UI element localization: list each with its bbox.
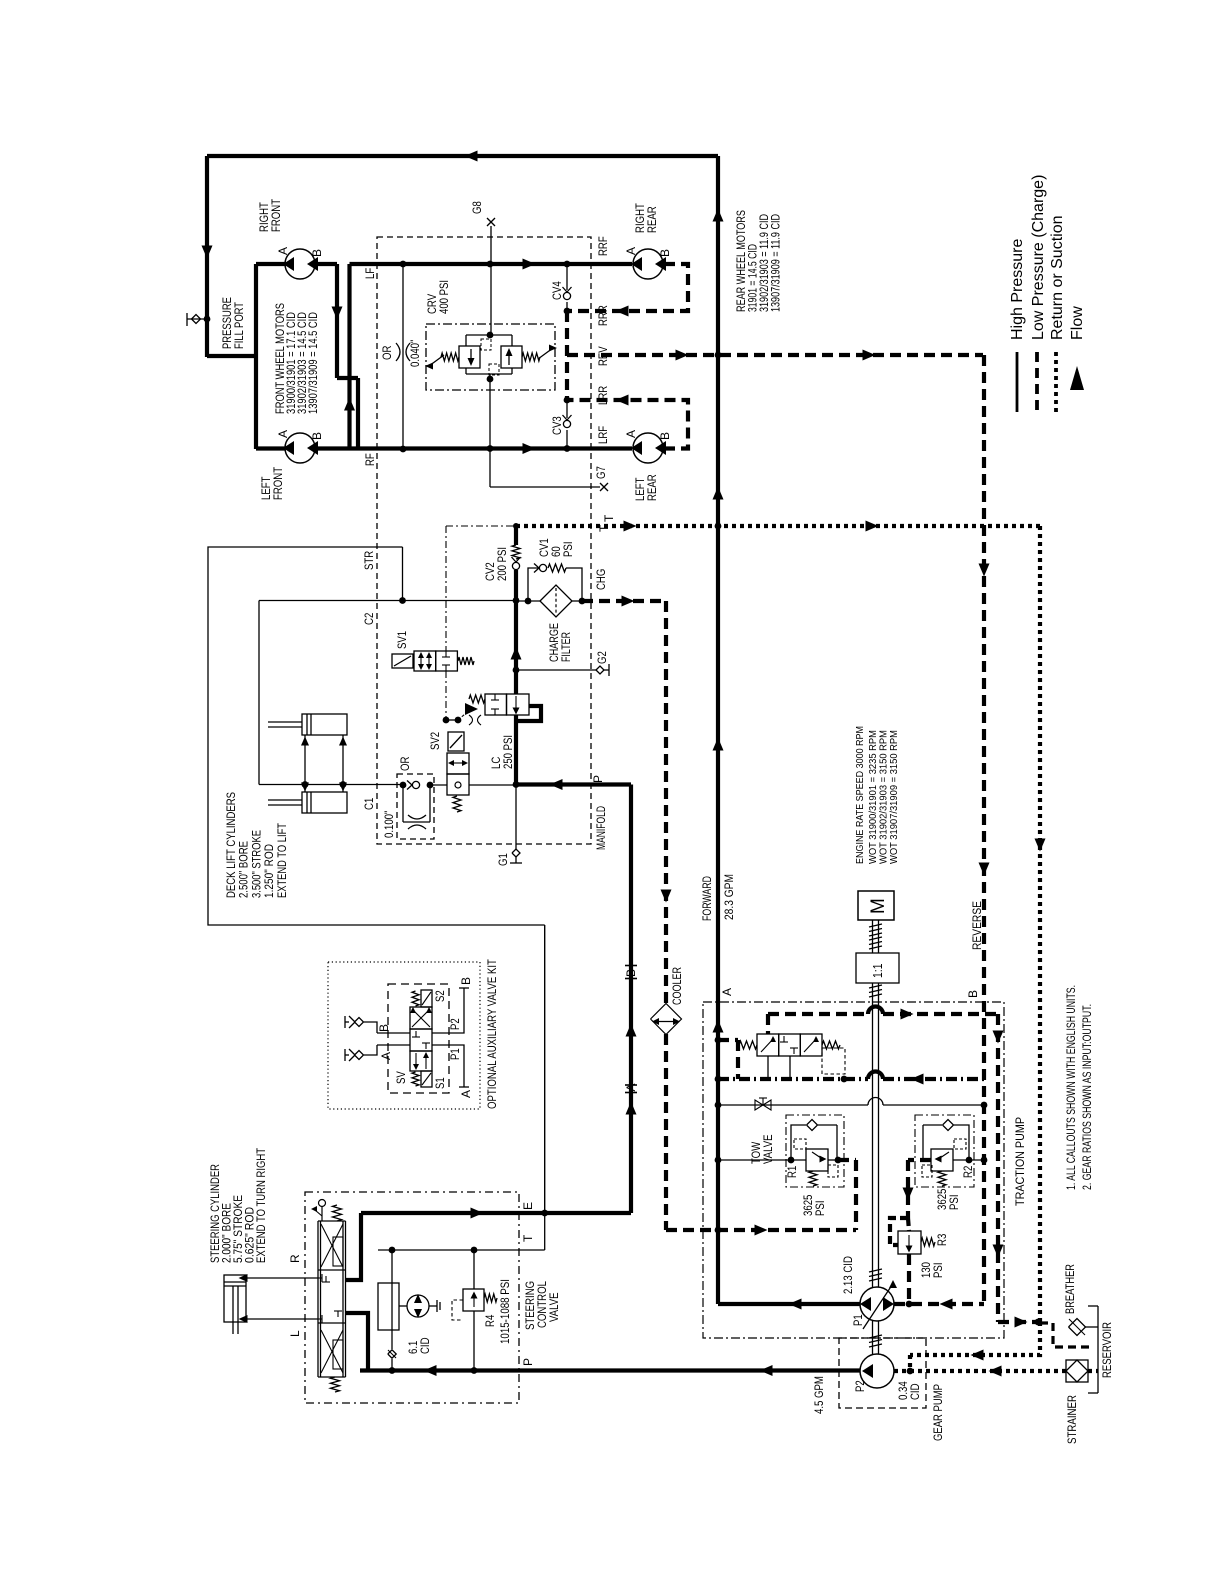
svg-text:GEAR PUMP: GEAR PUMP xyxy=(931,1384,945,1441)
svg-text:BREATHER: BREATHER xyxy=(1063,1264,1077,1314)
svg-text:A: A xyxy=(624,247,638,255)
svg-text:P2: P2 xyxy=(448,1018,462,1030)
svg-text:13907/31909 = 14.5 CID: 13907/31909 = 14.5 CID xyxy=(306,312,320,414)
svg-text:CID: CID xyxy=(908,1383,922,1400)
svg-text:OPTIONAL AUXILIARY VALVE KIT: OPTIONAL AUXILIARY VALVE KIT xyxy=(485,959,499,1109)
svg-text:REAR: REAR xyxy=(645,206,659,233)
svg-text:WOT 31902/31903 = 3150 RPM: WOT 31902/31903 = 3150 RPM xyxy=(879,730,890,864)
svg-text:A: A xyxy=(624,430,638,438)
svg-text:S1: S1 xyxy=(433,1077,447,1089)
svg-text:M: M xyxy=(868,898,889,914)
svg-text:VALVE: VALVE xyxy=(547,1293,561,1323)
svg-text:R3: R3 xyxy=(935,1233,949,1246)
svg-text:A: A xyxy=(276,247,290,255)
svg-text:200 PSI: 200 PSI xyxy=(495,547,509,581)
svg-text:C1: C1 xyxy=(362,797,376,810)
svg-text:250 PSI: 250 PSI xyxy=(501,735,515,769)
svg-text:B: B xyxy=(658,249,672,257)
svg-text:A: A xyxy=(276,430,290,438)
svg-text:R2: R2 xyxy=(961,1165,975,1178)
svg-text:T: T xyxy=(521,1234,535,1242)
svg-text:EXTEND TO TURN RIGHT: EXTEND TO TURN RIGHT xyxy=(254,1147,268,1263)
svg-text:PSI: PSI xyxy=(947,1195,961,1211)
svg-text:WOT 31900/31901 = 3235 RPM: WOT 31900/31901 = 3235 RPM xyxy=(868,730,879,864)
svg-text:C2: C2 xyxy=(362,612,376,625)
svg-text:STRAINER: STRAINER xyxy=(1065,1395,1079,1444)
svg-text:B: B xyxy=(624,969,638,977)
svg-text:PSI: PSI xyxy=(813,1201,827,1217)
svg-text:P1: P1 xyxy=(448,1048,462,1060)
svg-text:28.3 GPM: 28.3 GPM xyxy=(722,874,736,920)
svg-text:REV: REV xyxy=(596,346,610,366)
svg-text:P: P xyxy=(521,1358,535,1366)
svg-text:FRONT: FRONT xyxy=(271,466,285,500)
svg-text:P2: P2 xyxy=(853,1380,867,1392)
svg-text:T: T xyxy=(602,514,616,522)
svg-text:4.5 GPM: 4.5 GPM xyxy=(812,1376,826,1414)
svg-text:PSI: PSI xyxy=(561,542,575,558)
svg-text:G1: G1 xyxy=(496,853,510,866)
svg-text:RESERVOIR: RESERVOIR xyxy=(1100,1322,1114,1378)
svg-text:LRR: LRR xyxy=(596,386,610,405)
svg-text:STR: STR xyxy=(362,551,376,570)
svg-text:E: E xyxy=(521,1202,535,1210)
svg-text:High Pressure: High Pressure xyxy=(1009,239,1026,340)
svg-text:MANIFOLD: MANIFOLD xyxy=(594,806,608,850)
svg-text:WOT 31907/31909 = 3150 RPM: WOT 31907/31909 = 3150 RPM xyxy=(889,730,900,864)
svg-text:A: A xyxy=(459,1090,473,1098)
svg-text:PSI: PSI xyxy=(931,1263,945,1279)
svg-text:G8: G8 xyxy=(470,201,484,214)
svg-text:2.13 CID: 2.13 CID xyxy=(841,1256,855,1294)
svg-text:RRF: RRF xyxy=(596,236,610,256)
svg-text:2. GEAR RATIOS SHOWN AS INPUT:: 2. GEAR RATIOS SHOWN AS INPUT:OUTPUT. xyxy=(1080,1004,1094,1190)
svg-text:13907/31909 = 11.9 CID: 13907/31909 = 11.9 CID xyxy=(769,214,783,312)
svg-text:FILL PORT: FILL PORT xyxy=(232,301,246,349)
svg-text:A: A xyxy=(720,988,734,996)
svg-text:TRACTION PUMP: TRACTION PUMP xyxy=(1013,1117,1027,1206)
svg-text:S2: S2 xyxy=(433,990,447,1002)
svg-text:CV4: CV4 xyxy=(550,281,564,300)
svg-text:0.040": 0.040" xyxy=(408,340,422,367)
svg-text:LF: LF xyxy=(363,268,377,279)
svg-text:CV3: CV3 xyxy=(550,416,564,435)
svg-text:400 PSI: 400 PSI xyxy=(437,280,451,314)
svg-text:B: B xyxy=(310,432,324,440)
svg-text:R4: R4 xyxy=(483,1314,497,1327)
svg-text:B: B xyxy=(310,249,324,257)
svg-text:Flow: Flow xyxy=(1069,306,1086,340)
svg-text:B: B xyxy=(658,432,672,440)
svg-text:R: R xyxy=(288,1254,302,1263)
svg-text:REAR: REAR xyxy=(645,474,659,501)
svg-text:B: B xyxy=(377,1024,391,1032)
svg-text:FILTER: FILTER xyxy=(559,632,573,662)
svg-text:SV1: SV1 xyxy=(395,631,409,649)
svg-text:OR: OR xyxy=(380,345,394,360)
svg-text:1:1: 1:1 xyxy=(870,964,885,979)
svg-text:B: B xyxy=(459,977,473,985)
svg-text:0.100": 0.100" xyxy=(382,811,396,838)
svg-text:P1: P1 xyxy=(851,1314,865,1326)
svg-text:G2: G2 xyxy=(595,651,609,664)
svg-text:G7: G7 xyxy=(594,466,608,479)
svg-text:A: A xyxy=(624,1083,638,1091)
svg-text:FORWARD: FORWARD xyxy=(700,876,714,921)
svg-text:A: A xyxy=(379,1052,393,1060)
svg-text:CHG: CHG xyxy=(594,569,608,590)
svg-text:CID: CID xyxy=(418,1337,432,1354)
svg-text:SV: SV xyxy=(394,1071,408,1084)
svg-text:L: L xyxy=(288,1330,302,1337)
svg-text:1015-1088 PSI: 1015-1088 PSI xyxy=(498,1279,512,1344)
svg-text:B: B xyxy=(966,990,980,998)
svg-text:SV2: SV2 xyxy=(428,732,442,750)
svg-text:RF: RF xyxy=(363,453,377,466)
svg-text:1. ALL CALLOUTS SHOWN WITH ENG: 1. ALL CALLOUTS SHOWN WITH ENGLISH UNITS… xyxy=(1064,985,1078,1190)
svg-text:ENGINE RATE SPEED 3000 RPM: ENGINE RATE SPEED 3000 RPM xyxy=(855,726,866,864)
svg-text:OR: OR xyxy=(398,756,412,771)
svg-text:Low Pressure (Charge): Low Pressure (Charge) xyxy=(1030,175,1047,340)
svg-text:EXTEND TO LIFT: EXTEND TO LIFT xyxy=(275,822,289,898)
svg-text:COOLER: COOLER xyxy=(670,967,684,1005)
svg-text:FRONT: FRONT xyxy=(269,198,283,232)
svg-text:LRF: LRF xyxy=(596,426,610,444)
svg-text:RRR: RRR xyxy=(596,305,610,326)
svg-text:P: P xyxy=(591,775,605,783)
svg-text:Return or Suction: Return or Suction xyxy=(1049,215,1066,340)
svg-text:R1: R1 xyxy=(785,1165,799,1178)
